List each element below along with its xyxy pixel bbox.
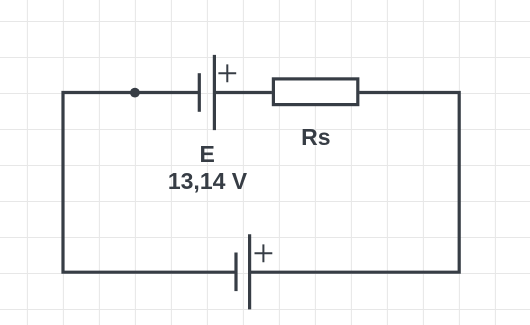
wire: battery E positive terminal to resistor Rs [214, 91, 272, 94]
svg-text:Rs: Rs [301, 124, 330, 150]
battery E: long positive plate [213, 55, 216, 130]
battery E: plus polarity mark [218, 64, 236, 82]
battery E: short negative plate [198, 73, 201, 112]
resistor Rs [273, 79, 357, 105]
svg-text:13,14 V: 13,14 V [168, 168, 248, 194]
wire: left loop (top-left horizontal, left vertical, bottom-left horizontal) [63, 93, 236, 273]
svg-text:E: E [200, 141, 215, 167]
label E (battery designator) [200, 141, 215, 167]
label Rs [301, 124, 330, 150]
battery 2 (bottom): plus polarity mark [255, 244, 273, 262]
battery 2 (bottom): short negative plate [234, 253, 237, 292]
junction dot (node on top-left wire) [130, 88, 140, 98]
battery 2 (bottom): long positive plate [248, 234, 251, 309]
label 13,14 V (battery value) [168, 168, 248, 194]
wire: resistor Rs to right vertical to bottom battery positive terminal [250, 93, 460, 273]
